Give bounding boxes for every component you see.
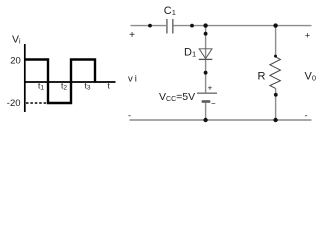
svg-text:vi: vi <box>128 73 137 84</box>
wire diode branch upper <box>205 26 207 93</box>
diode D1 <box>199 49 213 60</box>
svg-text:-20: -20 <box>7 98 21 109</box>
junction dot top rail resistor branch <box>273 23 277 27</box>
junction dot bottom rail diode branch <box>203 118 207 122</box>
svg-text:-: - <box>305 111 308 121</box>
svg-text:D1: D1 <box>184 47 196 59</box>
axis vertical Vi <box>24 44 26 112</box>
svg-text:20: 20 <box>10 55 21 66</box>
battery Vcc 5V <box>197 93 217 101</box>
wire resistor branch upper <box>275 26 277 57</box>
svg-text:V0: V0 <box>305 70 317 82</box>
svg-text:+: + <box>129 30 135 41</box>
junction dot diode cathode pin <box>204 71 208 75</box>
junction dot bottom rail resistor branch <box>273 118 277 122</box>
junction dot resistor top pin <box>274 55 277 58</box>
svg-text:R: R <box>258 71 266 83</box>
svg-text:Vi: Vi <box>12 33 21 45</box>
dashed line -20 level <box>26 102 47 104</box>
waveform square wave vi <box>25 60 96 104</box>
svg-text:+: + <box>208 84 213 93</box>
svg-text:−: − <box>211 99 216 108</box>
svg-text:-: - <box>128 111 131 121</box>
junction dot top rail C1 right pin <box>190 24 194 28</box>
junction dot top rail diode branch <box>203 23 207 27</box>
junction dot resistor bottom pin <box>274 93 278 97</box>
svg-text:+: + <box>305 31 310 41</box>
wire bottom rail <box>130 119 312 121</box>
svg-text:VCC=5V: VCC=5V <box>159 91 195 103</box>
resistor R zigzag <box>270 57 281 89</box>
wire resistor branch lower <box>275 88 277 120</box>
junction dot top rail C1 left pin <box>148 24 152 28</box>
wire top rail <box>131 25 312 27</box>
axis horizontal t <box>24 81 116 83</box>
svg-text:C1: C1 <box>164 5 176 17</box>
junction dot diode anode pin <box>204 32 208 36</box>
wire diode branch lower <box>205 103 207 120</box>
capacitor C1 plates <box>167 19 173 34</box>
